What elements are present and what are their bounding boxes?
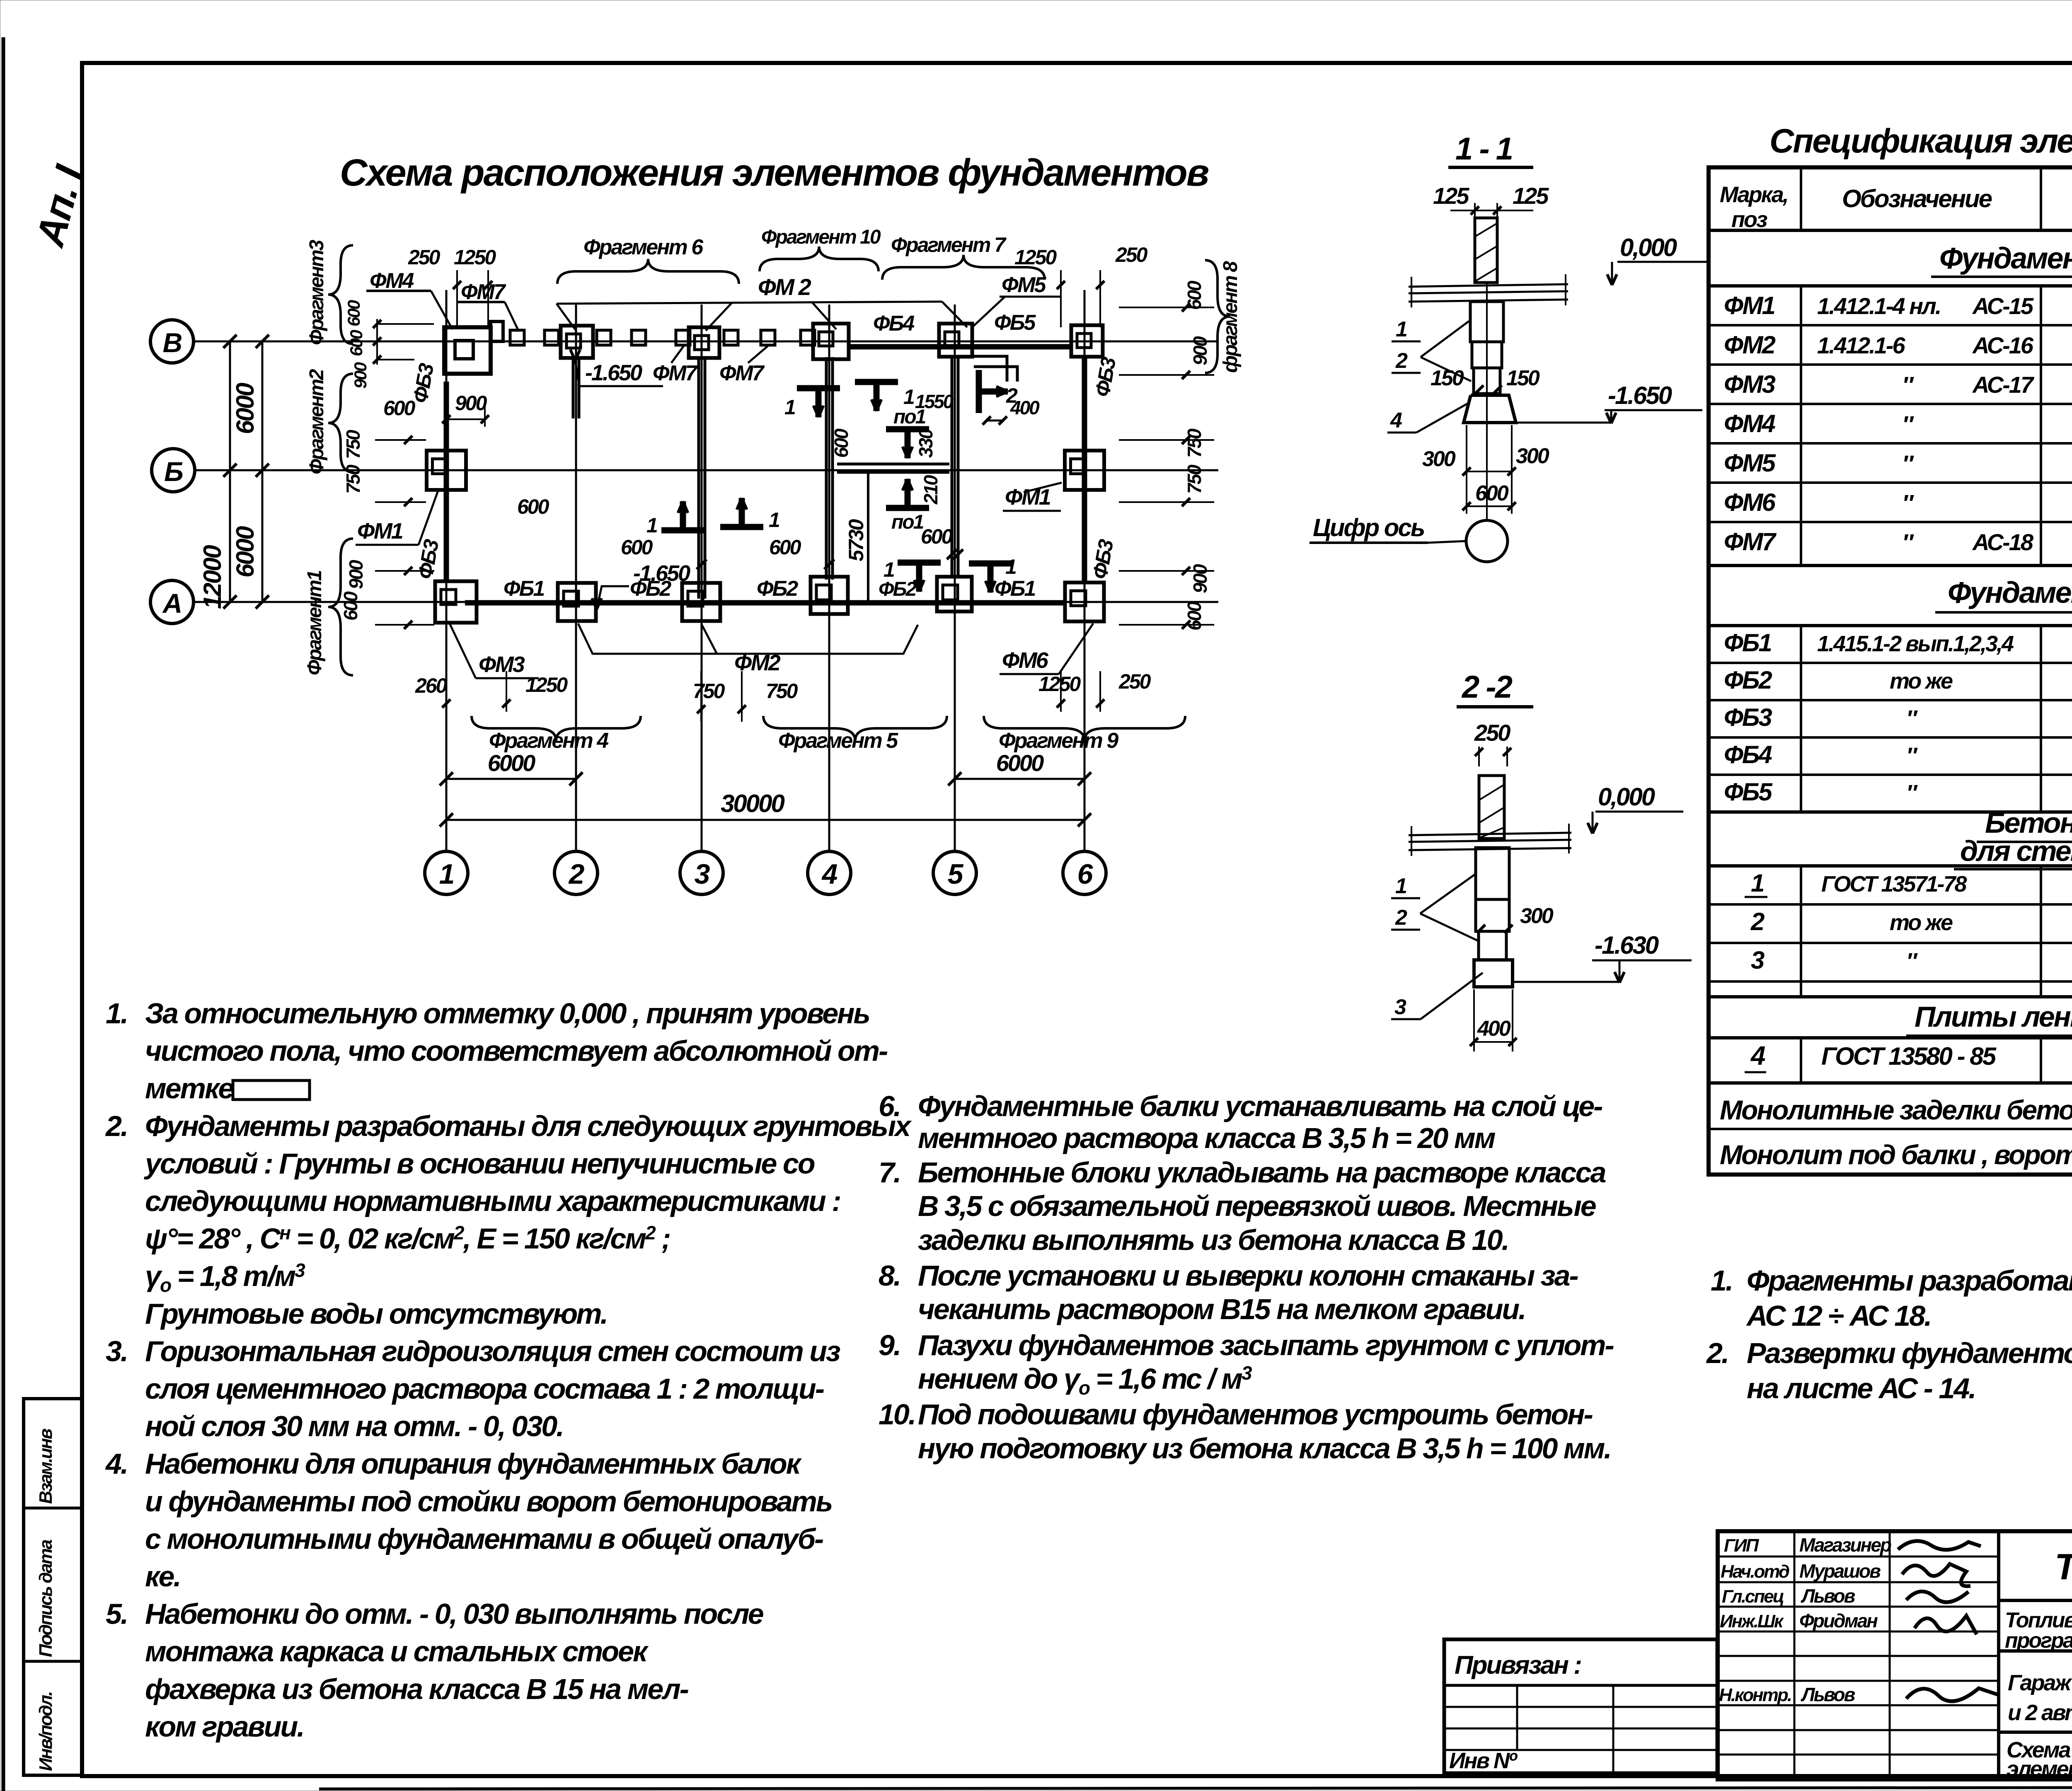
- svg-text:12000: 12000: [198, 545, 226, 609]
- svg-text:А: А: [162, 588, 182, 619]
- svg-text:ФМ6: ФМ6: [1002, 648, 1049, 673]
- column 6 beam ФБ3: [1082, 357, 1087, 582]
- axis circle А: [150, 580, 194, 624]
- svg-text:для стен подвалов: для стен подвалов: [1960, 835, 2072, 867]
- svg-text:Обозначение: Обозначение: [1842, 185, 1992, 213]
- specification table grid: [1709, 167, 2072, 1175]
- svg-text:1: 1: [646, 514, 657, 537]
- svg-text:6.: 6.: [879, 1090, 900, 1122]
- row А foundation beam line: [465, 600, 1066, 606]
- svg-text:ФБ2: ФБ2: [1724, 666, 1772, 694]
- svg-text:Львов: Львов: [1801, 1684, 1855, 1705]
- svg-text:3: 3: [695, 858, 710, 890]
- ФБ5 corner beam at В-5: [974, 356, 1007, 382]
- svg-text:и фундаменты под стойки во: и фундаменты под стойки ворот бетонирова…: [145, 1485, 832, 1518]
- foundation ФМ5 at В-5: [939, 324, 972, 357]
- svg-text:В: В: [163, 327, 182, 358]
- svg-text:Набетонки до отм. - 0, 030: Набетонки до отм. - 0, 030 выполнять пос…: [145, 1598, 763, 1630]
- svg-text:ψ°= 28° , Сн = 0, 02 кг/см2: ψ°= 28° , Сн = 0, 02 кг/см2, Е = 150 кг/…: [145, 1222, 670, 1255]
- svg-text:″: ″: [1902, 490, 1914, 516]
- fragment brace 5 bottom: [763, 716, 947, 741]
- svg-text:фрагмент 8: фрагмент 8: [1220, 261, 1242, 373]
- svg-text:ке.: ке.: [145, 1560, 180, 1593]
- bound box grid: [1444, 1706, 1717, 1708]
- svg-text:1: 1: [884, 558, 894, 581]
- svg-text:1: 1: [439, 858, 454, 890]
- svg-text:АС-18: АС-18: [1972, 529, 2034, 555]
- foundation ФМ2 at А-4: [811, 577, 848, 614]
- svg-text:1250: 1250: [525, 673, 568, 696]
- svg-text:250: 250: [1115, 243, 1148, 266]
- svg-text:2: 2: [1395, 906, 1407, 930]
- row В beam ФБ4 between axes 4-6: [849, 344, 1071, 350]
- svg-text:За относительную отметку 0,000: За относительную отметку 0,000 , принят …: [145, 997, 869, 1030]
- svg-text:900: 900: [455, 392, 487, 415]
- svg-text:600: 600: [1184, 601, 1205, 631]
- svg-text:600: 600: [344, 300, 363, 326]
- svg-text:АС-16: АС-16: [1972, 332, 2034, 358]
- section 2-2 bottom dim 400: [1473, 989, 1475, 1051]
- svg-text:600: 600: [830, 428, 852, 458]
- svg-text:1.415.1-2 вып.1,2,3,4: 1.415.1-2 вып.1,2,3,4: [1817, 631, 2014, 656]
- svg-text:ФБ2: ФБ2: [879, 578, 917, 600]
- svg-text:4: 4: [1390, 408, 1402, 433]
- svg-text:Б: Б: [164, 456, 183, 487]
- svg-text:ФМ6: ФМ6: [1724, 488, 1776, 516]
- section 1-1 column hatched: [1475, 218, 1497, 283]
- svg-text:нением до γо = 1,6 тс /: нением до γо = 1,6 тс / м3: [918, 1362, 1252, 1399]
- svg-text:чеканить раствором В15 н: чеканить раствором В15 на мелком гравии.: [918, 1293, 1525, 1325]
- svg-text:Фрагмент 4: Фрагмент 4: [489, 729, 609, 753]
- svg-text:Плиты ленточных фундаментов: Плиты ленточных фундаментов: [1915, 1001, 2072, 1033]
- section 1-1 axis line and circle: [1486, 283, 1488, 520]
- svg-text:125: 125: [1513, 183, 1549, 209]
- svg-text:Инв Nº: Инв Nº: [1449, 1748, 1518, 1773]
- svg-text:ФБ5: ФБ5: [1724, 778, 1773, 806]
- column 4 wall: [825, 357, 828, 580]
- svg-text:ФБ3: ФБ3: [1724, 703, 1772, 731]
- svg-text:″: ″: [1906, 706, 1918, 731]
- svg-text:600: 600: [921, 525, 953, 548]
- svg-text:600: 600: [621, 536, 653, 559]
- svg-text:ФМ5: ФМ5: [1002, 273, 1047, 297]
- section 2-2 wall hatched: [1479, 776, 1504, 839]
- svg-text:750: 750: [766, 679, 798, 703]
- foundation ФМ2 at В-3: [689, 327, 719, 358]
- title block outer box: [1718, 1531, 2072, 1779]
- svg-text:4.: 4.: [105, 1448, 127, 1480]
- svg-text:Бетонные блоки укладывать: Бетонные блоки укладывать на растворе кл…: [918, 1156, 1606, 1189]
- svg-text:Фрагмент1: Фрагмент1: [304, 570, 326, 675]
- I-beam with 2 near В-5: [979, 370, 1008, 413]
- scan edge artifacts: [2, 37, 5, 1791]
- svg-text:АС 12 ÷ АС 18.: АС 12 ÷ АС 18.: [1746, 1300, 1931, 1332]
- svg-text:1: 1: [769, 508, 779, 532]
- svg-text:Гараж на 2 автомашины: Гараж на 2 автомашины: [2008, 1670, 2072, 1695]
- svg-text:-1.650: -1.650: [1608, 382, 1672, 409]
- svg-text:″: ″: [1906, 743, 1918, 768]
- svg-text:Фрагмент 5: Фрагмент 5: [778, 729, 898, 753]
- svg-text:ФМ2: ФМ2: [1724, 331, 1776, 359]
- svg-text:Фрагмент2: Фрагмент2: [306, 369, 328, 474]
- foundation at А-3: [682, 583, 720, 621]
- svg-text:ФМ4: ФМ4: [370, 269, 414, 293]
- svg-text:600: 600: [383, 396, 416, 420]
- svg-text:ФМ5: ФМ5: [1724, 449, 1777, 477]
- svg-text:Фундаменты разработаны для сле: Фундаменты разработаны для следующих гру…: [145, 1110, 912, 1142]
- svg-text:750: 750: [1184, 464, 1205, 494]
- svg-text:ГОСТ 13571-78: ГОСТ 13571-78: [1821, 872, 1967, 897]
- svg-text:ФМ 2: ФМ 2: [758, 274, 811, 300]
- svg-text:″: ″: [1906, 781, 1918, 805]
- svg-text:750: 750: [342, 430, 364, 459]
- section 2-2 footing block: [1474, 960, 1513, 987]
- section 1-1 lower dims 300 300: [1466, 425, 1467, 514]
- svg-text:10.: 10.: [879, 1398, 915, 1431]
- left margin stamp boxes: [24, 1399, 82, 1775]
- svg-text:ную подготовку из бетона: ную подготовку из бетона класса В 3,5 h …: [918, 1432, 1611, 1465]
- svg-text:3: 3: [1394, 995, 1406, 1019]
- svg-text:Грунтовые воды отсутствуют: Грунтовые воды отсутствуют.: [145, 1298, 607, 1330]
- svg-text:ком гравии.: ком гравии.: [145, 1710, 304, 1743]
- svg-text:Марка,: Марка,: [1720, 182, 1788, 207]
- svg-text:Мурашов: Мурашов: [1799, 1560, 1881, 1582]
- svg-text:чистого пола, что соответствуе: чистого пола, что соответствует абсолютн…: [145, 1035, 888, 1067]
- svg-text:1250: 1250: [454, 246, 496, 269]
- I-beam по1 lower: [886, 479, 929, 508]
- svg-text:3.: 3.: [106, 1335, 127, 1367]
- svg-text:ментного раствора класса: ментного раствора класса В 3,5 h = 20 мм: [918, 1122, 1496, 1154]
- svg-text:ГИП: ГИП: [1724, 1535, 1760, 1556]
- svg-text:″: ″: [1902, 450, 1914, 476]
- column 5 wall: [951, 356, 954, 578]
- svg-text:1.412.1-4 нл.: 1.412.1-4 нл.: [1817, 293, 1940, 319]
- foundation ФМ4 at В-1: [444, 327, 491, 374]
- svg-text:Спецификация элементов фундаме: Спецификация элементов фундаментов: [1769, 122, 2072, 160]
- svg-text:4: 4: [1750, 1041, 1765, 1071]
- svg-text:2.: 2.: [105, 1110, 127, 1142]
- svg-text:0,000: 0,000: [1620, 234, 1677, 261]
- axis circles 1-6: [425, 851, 468, 894]
- svg-text:Фрагмент3: Фрагмент3: [306, 239, 328, 345]
- signature squiggles: [1898, 1541, 1981, 1550]
- section 1-1 floor slab lines: [1409, 284, 1568, 287]
- svg-text:Фрагмент 6: Фрагмент 6: [583, 235, 704, 259]
- bottom dimension 6000 bay 1-2: [446, 778, 576, 780]
- svg-text:Фундаменты монолитные: Фундаменты монолитные: [1939, 242, 2072, 275]
- svg-text:Фундаментные балки: Фундаментные балки: [1948, 576, 2072, 609]
- svg-text:по1: по1: [891, 511, 924, 533]
- svg-text:4: 4: [821, 858, 838, 890]
- svg-text:Гл.спец: Гл.спец: [1722, 1586, 1784, 1607]
- svg-text:ФМ1: ФМ1: [1005, 485, 1051, 510]
- svg-text:600: 600: [517, 495, 549, 518]
- svg-text:2: 2: [1395, 349, 1408, 373]
- fragment brace 9 bottom: [984, 716, 1185, 741]
- foundation ФМ1 at Б-6: [1065, 451, 1104, 490]
- foundation ФМ2 at В-2: [561, 326, 593, 358]
- bottom dimension 6000 bay 5-6: [955, 778, 1084, 780]
- svg-text:Подпись дата: Подпись дата: [36, 1540, 56, 1657]
- column 3 wall: [697, 358, 700, 599]
- svg-text:150: 150: [1506, 366, 1540, 390]
- svg-text:следующими нормативными хара: следующими нормативными характеристиками…: [145, 1185, 840, 1217]
- svg-text:1550: 1550: [915, 391, 954, 412]
- I-beam pair above row А: [898, 563, 941, 592]
- foundation at А-5: [937, 577, 972, 612]
- svg-text:ТП — 503-1- 83, 91 — АС: ТП — 503-1- 83, 91 — АС: [2055, 1546, 2072, 1587]
- svg-text:ФМ1: ФМ1: [357, 519, 403, 544]
- svg-text:5.: 5.: [106, 1598, 127, 1630]
- svg-text:ФБ1: ФБ1: [503, 577, 544, 601]
- svg-text:Схема расположения элементов ф: Схема расположения элементов фундаментов: [340, 152, 1209, 194]
- svg-text:150: 150: [1431, 366, 1464, 390]
- svg-text:300: 300: [1422, 447, 1456, 471]
- svg-text:125: 125: [1433, 183, 1469, 209]
- axis row lines: [194, 341, 1218, 343]
- svg-text:600: 600: [769, 536, 801, 559]
- svg-text:Фрагмент 7: Фрагмент 7: [891, 233, 1007, 256]
- svg-text:3: 3: [1751, 946, 1765, 974]
- svg-text:ФМ7: ФМ7: [719, 361, 765, 385]
- svg-text:6000: 6000: [996, 750, 1044, 776]
- foundation ФМ2 at В-4: [813, 324, 849, 359]
- left vertical dimension 12000: [229, 341, 231, 602]
- svg-text:210: 210: [920, 475, 942, 505]
- svg-text:260: 260: [415, 674, 448, 697]
- svg-text:слоя цементного раствора со: слоя цементного раствора состава 1 : 2 т…: [145, 1373, 824, 1405]
- svg-text:Взам.инв: Взам.инв: [36, 1428, 56, 1504]
- svg-text:Фрагмент 9: Фрагмент 9: [999, 729, 1118, 753]
- I-beam symbols span 3-4 upper: [797, 388, 840, 417]
- svg-text:9.: 9.: [879, 1329, 900, 1361]
- svg-text:-1.650: -1.650: [585, 360, 642, 385]
- svg-text:ФБ2: ФБ2: [757, 577, 798, 601]
- section 1-1 footing trapezoid: [1464, 395, 1516, 423]
- svg-text:то же: то же: [1890, 910, 1953, 935]
- svg-text:ФМ3: ФМ3: [479, 652, 525, 677]
- svg-text:5: 5: [948, 858, 964, 890]
- svg-text:программой 15 тыс.т. условног: программой 15 тыс.т. условного топлива: [2005, 1629, 2072, 1653]
- svg-text:на листе АС - 14.: на листе АС - 14.: [1747, 1372, 1975, 1404]
- svg-text:7.: 7.: [879, 1156, 900, 1189]
- svg-text:″: ″: [1906, 949, 1918, 974]
- svg-text:Монолит под балки , ворота: Монолит под балки , ворота - II - В15: [1720, 1139, 2072, 1170]
- svg-text:750: 750: [1184, 428, 1205, 458]
- svg-text:ФМ4: ФМ4: [1724, 410, 1776, 437]
- svg-text:″: ″: [1902, 411, 1914, 437]
- foundation ФМ1 at Б-1: [427, 451, 466, 490]
- svg-text:-1.650: -1.650: [633, 561, 690, 586]
- svg-text:900: 900: [1189, 336, 1211, 365]
- svg-text:1: 1: [1395, 874, 1406, 898]
- bottom dimension line 30000: [446, 819, 1084, 821]
- title block signature rows: [1718, 1556, 1999, 1558]
- svg-text:Фрагмент 10: Фрагмент 10: [761, 226, 881, 248]
- foundation ФМ6 at А-6: [1065, 582, 1104, 621]
- I-beam symbols with callouts between axes 2-3: [661, 501, 704, 530]
- svg-text:900: 900: [345, 560, 367, 589]
- svg-text:поз: поз: [1731, 207, 1767, 232]
- svg-text:1250: 1250: [1038, 672, 1081, 696]
- svg-text:1: 1: [1396, 317, 1407, 341]
- svg-text:300: 300: [1516, 444, 1549, 468]
- svg-text:400: 400: [1010, 397, 1040, 418]
- foundation ФМ3 at А-1: [435, 581, 477, 623]
- svg-text:ФБ5: ФБ5: [994, 311, 1036, 335]
- svg-text:6: 6: [1077, 858, 1094, 890]
- svg-text:γо = 1,8 т/м3: γо = 1,8 т/м3: [145, 1259, 305, 1296]
- svg-text:ФБ1: ФБ1: [1724, 629, 1771, 657]
- svg-text:Фрагменты разработаны на: Фрагменты разработаны на листах :: [1747, 1264, 2072, 1297]
- svg-text:5730: 5730: [845, 519, 868, 561]
- internal wall between axes 4-5: [837, 463, 949, 466]
- svg-text:АС-17: АС-17: [1972, 372, 2035, 398]
- svg-text:ФМ7: ФМ7: [1724, 528, 1777, 556]
- svg-text:Фридман: Фридман: [1799, 1610, 1878, 1631]
- svg-text:то же: то же: [1890, 669, 1953, 694]
- svg-text:1: 1: [1751, 869, 1764, 897]
- svg-text:0,000: 0,000: [1598, 783, 1655, 811]
- svg-text:2 -2: 2 -2: [1461, 670, 1513, 705]
- svg-text:2: 2: [568, 858, 585, 890]
- svg-text:Цифр ось: Цифр ось: [1313, 514, 1424, 541]
- left vertical dimensions 6000 6000: [261, 341, 264, 602]
- axis circle Б: [152, 449, 195, 492]
- svg-text:ФМ3: ФМ3: [1724, 370, 1776, 398]
- svg-text:ФМ7: ФМ7: [653, 361, 698, 385]
- svg-text:600: 600: [340, 591, 361, 621]
- svg-text:Инв/подл.: Инв/подл.: [36, 1692, 56, 1771]
- column 1 beam ФБ3: [444, 382, 449, 582]
- svg-text:ФБ4: ФБ4: [1724, 741, 1772, 769]
- svg-text:В 3,5 с обязательной перев: В 3,5 с обязательной перевязкой швов. Ме…: [918, 1190, 1596, 1222]
- svg-text:900: 900: [1189, 564, 1211, 593]
- svg-text:Развертки фундаментов по ос: Развертки фундаментов по осям „3 ,4,5,6”…: [1747, 1337, 2072, 1369]
- svg-text:2: 2: [1750, 908, 1765, 935]
- svg-text:ФБ4: ФБ4: [873, 312, 915, 336]
- svg-text:Под подошвами фундаментов: Под подошвами фундаментов устроить бетон…: [918, 1398, 1593, 1431]
- svg-text:ФМ1: ФМ1: [1724, 292, 1775, 319]
- fragment brace 4 bottom: [472, 716, 641, 741]
- svg-text:ФМ7: ФМ7: [461, 280, 506, 304]
- svg-text:30000: 30000: [721, 790, 784, 817]
- fragment brace 6 top: [557, 259, 739, 284]
- svg-text:250: 250: [408, 246, 441, 269]
- note 1 level rectangle: [233, 1080, 310, 1100]
- svg-text:″: ″: [1902, 372, 1914, 398]
- svg-text:ГОСТ 13580 - 85: ГОСТ 13580 - 85: [1821, 1042, 1997, 1070]
- svg-text:Н.контр.: Н.контр.: [1719, 1685, 1791, 1705]
- svg-text:После установки и выверки: После установки и выверки колонн стаканы…: [918, 1259, 1578, 1292]
- svg-text:Бетонные блоки: Бетонные блоки: [1985, 807, 2072, 839]
- svg-text:с монолитными фундаментами: с монолитными фундаментами в общей опалу…: [145, 1523, 823, 1555]
- svg-text:1: 1: [903, 385, 914, 408]
- svg-text:Львов: Львов: [1801, 1585, 1855, 1607]
- column 2 wall stub: [572, 358, 575, 418]
- svg-text:метке: метке: [145, 1072, 233, 1105]
- foundation at А-2: [558, 583, 596, 621]
- svg-text:Пазухи фундаментов засыпат: Пазухи фундаментов засыпать грунтом с уп…: [918, 1329, 1614, 1361]
- fachwerk posts ФМ7 small squares row В: [510, 330, 524, 345]
- svg-text:ФБ3: ФБ3: [1088, 537, 1118, 581]
- fragment brace 7 top: [882, 255, 1045, 280]
- svg-text:элементов фундаментов: элементов фундаментов: [2007, 1757, 2072, 1781]
- svg-text:Фундаментные балки устанавли: Фундаментные балки устанавливать на слой…: [918, 1090, 1602, 1122]
- svg-text:1.412.1-6: 1.412.1-6: [1817, 332, 1905, 358]
- bound box Привязан: [1444, 1639, 1717, 1773]
- svg-text:1250: 1250: [1014, 246, 1057, 269]
- svg-text:6000: 6000: [488, 750, 535, 776]
- svg-text:и 2 автопогрузчика: и 2 автопогрузчика: [2008, 1700, 2072, 1725]
- svg-text:Магазинер: Магазинер: [1799, 1534, 1891, 1556]
- svg-text:Привязан :: Привязан :: [1455, 1651, 1581, 1680]
- svg-text:8.: 8.: [879, 1259, 900, 1292]
- svg-text:250: 250: [1118, 670, 1151, 693]
- svg-text:монтажа каркаса и сталь: монтажа каркаса и стальных стоек: [145, 1635, 649, 1668]
- svg-text:1: 1: [784, 396, 795, 419]
- svg-text:330: 330: [915, 428, 937, 458]
- svg-text:600: 600: [1475, 481, 1509, 505]
- svg-text:Горизонтальная гидроизоляция: Горизонтальная гидроизоляция стен состои…: [145, 1335, 840, 1367]
- svg-text:400: 400: [1477, 1017, 1511, 1041]
- svg-text:300: 300: [1520, 904, 1554, 928]
- svg-text:″: ″: [1902, 529, 1914, 555]
- svg-text:-1.630: -1.630: [1595, 931, 1659, 959]
- svg-text:250: 250: [1474, 720, 1510, 746]
- section 2-2 block stack: [1476, 848, 1509, 899]
- svg-text:условий : Грунты в основан: условий : Грунты в основании непучинисты…: [144, 1147, 815, 1179]
- svg-text:Монолитные заделки бетон кла: Монолитные заделки бетон класса В10: [1720, 1095, 2072, 1125]
- svg-text:2.: 2.: [1706, 1337, 1728, 1369]
- axis column lines: [445, 290, 448, 851]
- svg-text:ФБ3: ФБ3: [1091, 355, 1121, 399]
- svg-text:ной слоя 30 мм на отм. -: ной слоя 30 мм на отм. - 0, 030.: [145, 1410, 563, 1443]
- svg-text:6000: 6000: [231, 526, 259, 578]
- foundation at В-6: [1071, 325, 1103, 357]
- svg-text:1.: 1.: [1711, 1264, 1732, 1297]
- svg-text:1.: 1.: [106, 997, 127, 1030]
- fragment brace 10 top: [760, 247, 879, 271]
- svg-text:фахверка из бетона класса: фахверка из бетона класса В 15 на мел-: [145, 1673, 689, 1705]
- svg-text:1 - 1: 1 - 1: [1455, 131, 1512, 167]
- axis circle В: [150, 320, 194, 363]
- svg-text:750: 750: [693, 679, 725, 703]
- svg-text:ФБ1: ФБ1: [995, 577, 1035, 601]
- svg-text:АС-15: АС-15: [1972, 293, 2034, 319]
- svg-text:Нач.отд: Нач.отд: [1721, 1561, 1789, 1582]
- svg-text:6000: 6000: [231, 383, 259, 434]
- svg-text:900: 900: [351, 362, 370, 389]
- section 2-2 floor lines: [1409, 833, 1571, 835]
- svg-text:1: 1: [1005, 555, 1016, 578]
- svg-text:Инж.Шк: Инж.Шк: [1720, 1611, 1784, 1631]
- svg-text:заделки выполнять из бето: заделки выполнять из бетона класса В 10.: [918, 1224, 1508, 1256]
- section 1-1 block stack: [1470, 302, 1503, 342]
- svg-text:Набетонки для опирания фунд: Набетонки для опирания фундаментных бало…: [145, 1448, 802, 1480]
